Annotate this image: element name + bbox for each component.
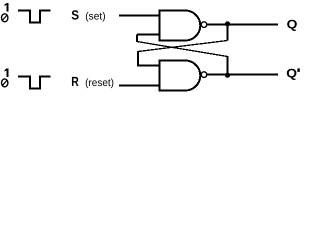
svg-text:Q: Q — [286, 67, 297, 81]
wire S input to gate U1 — [119, 15, 160, 17]
svg-text:S: S — [71, 8, 79, 23]
wire U2 first input — [137, 65, 160, 67]
apostrophe of Q' — [297, 68, 299, 72]
junction dot node Q' — [225, 73, 230, 78]
svg-text:R: R — [71, 74, 79, 89]
wire U1 output to Q node — [207, 24, 278, 26]
svg-text:(set): (set) — [85, 11, 105, 23]
logic level label 1 (top S input) — [4, 3, 8, 12]
logic level label 1 (bottom R input) — [4, 68, 8, 77]
wire stub left (Q feedback) — [137, 51, 139, 66]
NAND gate U1 output bubble — [201, 22, 207, 28]
cross wire Q' to U1 input (diagonal) — [137, 42, 228, 57]
S input pulse waveform — [18, 11, 50, 23]
R input pulse waveform — [18, 77, 50, 89]
wire down to Q' node — [227, 56, 229, 75]
NAND gate U2 (bottom) body — [160, 61, 201, 91]
wire Q node down to cross — [227, 25, 229, 41]
wire U2 output to Q' node — [207, 74, 278, 76]
wire stub left (Q' feedback) — [136, 35, 138, 43]
svg-text:(reset): (reset) — [85, 77, 114, 89]
NAND gate U2 output bubble — [201, 72, 207, 78]
logic level label 0 slashed (bottom R input) — [1, 79, 7, 87]
NAND gate U1 (top) body — [160, 11, 201, 41]
logic level label 0 slashed (top S input) — [1, 14, 7, 22]
wire R input to gate U2 — [119, 85, 160, 87]
junction dot node Q — [225, 21, 230, 26]
svg-text:Q: Q — [287, 17, 298, 31]
wire U1 second input stub — [137, 34, 160, 36]
cross wire Q to U2 input (diagonal) — [138, 41, 228, 52]
